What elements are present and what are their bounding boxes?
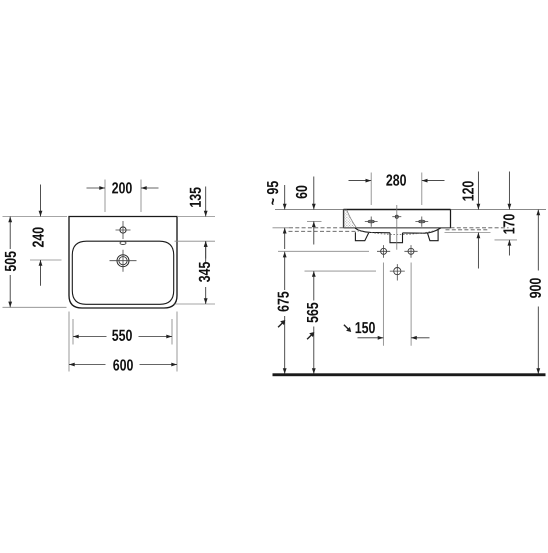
dimension 600 [69,312,177,372]
floor line [273,373,546,376]
waste level reference line [305,270,377,272]
dashed hidden line upper [289,227,509,229]
dimension 675 [284,252,286,374]
profile right edge [450,210,452,228]
dimension 280 [371,173,422,206]
faucet mark on centerline [395,215,398,218]
dimension 170 [495,239,518,241]
under-bowl contour left [355,228,390,233]
dashed hidden line lower [289,230,488,232]
extension line drain level [30,259,62,261]
deck fixing hole left [368,220,374,223]
extension line bottom-left [3,306,67,308]
overflow slot [120,242,126,245]
supply connection left [381,248,387,254]
dimension 135 [177,216,215,218]
dimension 60 [307,220,322,222]
under-bowl contour right [403,228,442,233]
hidden inner-bowl dotted line [359,230,434,235]
supply connection right [408,248,414,254]
faucet hole [120,227,126,233]
dimension 240 [40,185,42,286]
drain box [390,233,403,243]
dimension 565 [313,271,315,374]
leader arrow for 150 [344,325,348,329]
supply level reference line [278,250,369,252]
drain [117,255,129,267]
deck fixing hole right [419,220,425,223]
basin inner bowl [72,241,173,304]
right leg [428,230,439,241]
profile left edge [343,210,345,228]
waste connection [394,268,401,275]
extension line top-left [3,216,68,218]
dimension ~95 [273,227,290,229]
dimension 345 [175,303,216,305]
profile top edge [344,209,451,211]
dimension 150 [383,263,411,346]
dimension 550 [73,319,172,345]
rim underside edge [344,227,451,229]
dimension 200 [105,180,141,213]
dimension 120 [445,232,491,234]
leader arrow for 675 [278,323,282,327]
leader arrow for 565 [307,335,311,339]
dimension 505 [9,217,11,308]
left leg [355,232,369,241]
section wedge (stippled ceramic cut) [344,210,356,228]
dimension 900 [537,210,539,374]
centerline [396,205,398,250]
basin outer outline [69,217,177,309]
rim top extension line across [275,209,546,211]
